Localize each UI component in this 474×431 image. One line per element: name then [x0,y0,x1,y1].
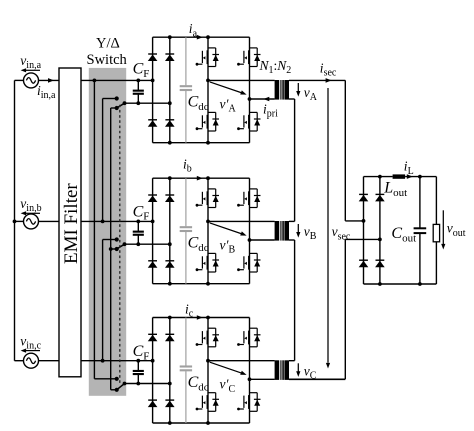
label v_C with arrow [297,363,299,373]
wire secondary a bottom chain to b top [289,98,295,100]
junction top rail m1 [206,316,210,320]
capacitor C_dc phase b [185,178,187,226]
switch coupling dashed line [119,105,121,385]
capacitor C_F phase c [137,361,139,371]
diode D2 top phase b [165,194,174,196]
output diode leg 1 [363,177,365,284]
label v_B with arrow [297,224,299,234]
diode D2 top phase a [165,53,174,55]
inductor L_out [393,174,406,178]
label v_sec with arrow [327,88,329,363]
svg-text:iL: iL [404,159,414,177]
junction bridge midpoint left [206,79,210,83]
wire bridge bottom rail [153,283,250,285]
wire bridge top rail [153,177,250,179]
diode D3 bottom phase a [148,119,157,121]
wire switch output to bridge [125,243,170,245]
mosfet Q1 phase a [208,47,216,49]
svg-text:vA: vA [304,85,318,103]
wire source to EMI filter [39,360,60,362]
EMI filter box [59,68,81,377]
svg-text:EMI Filter: EMI Filter [61,183,82,264]
wire bus 2 to rectifier [345,238,380,240]
diode D2 top phase c [165,333,174,335]
svg-text:Switch: Switch [87,52,128,68]
switch pivot dot phase b [115,247,119,251]
wire output top rail right [405,176,436,178]
svg-text:v′C: v′C [220,377,236,395]
label v'_A with arrow [210,82,242,93]
svg-text:v′A: v′A [220,96,237,114]
svg-text:CF: CF [133,343,150,362]
junction C_F bottom [136,382,140,386]
svg-text:Lout: Lout [383,180,407,199]
mosfet Q3 phase c [208,392,216,394]
svg-text:Cout: Cout [391,225,416,244]
junction C_F bottom [136,242,140,246]
junction top rail m1 [206,176,210,180]
junction top rail d2 [168,176,172,180]
mosfet Q4 phase c [250,392,258,394]
diode leg 1 [152,178,154,284]
wire bridge top rail [153,36,250,38]
transformer Tb [275,221,280,241]
junction blade tip [123,382,127,386]
capacitor C_dc phase a [185,37,187,85]
svg-text:ipri: ipri [263,102,278,120]
mosfet Q2 phase c [250,327,258,329]
switch pivot dot phase c [115,388,119,392]
wire bridge midpoint to transformer top [208,220,275,222]
switch contact dot phase a [115,96,119,100]
junction switch line at diode leg [168,242,172,246]
label v_A with arrow [297,83,299,93]
diode D4 bottom phase a [165,119,174,121]
mosfet Q3 phase a [208,111,216,113]
label v_out with arrow [442,210,444,244]
junction bottom rail d2 [168,421,172,425]
diode leg 2 [169,318,171,424]
svg-text:Y/Δ: Y/Δ [96,36,120,52]
diode D1 top phase a [148,53,157,55]
wire switch output to bridge [125,102,170,104]
mosfet leg 1 [207,37,209,143]
label i_sec with arrow [326,78,332,83]
junction C_F bottom [136,101,140,105]
junction switch line at diode leg [168,101,172,105]
switch blade phase c [117,384,125,390]
svg-text:vout: vout [447,221,466,239]
wire secondary b bottom chain to c top [289,239,295,241]
switch blade phase b [117,244,125,249]
wire bus 1 to rectifier [345,220,363,222]
diode Do3 [359,259,368,261]
svg-text:CF: CF [133,60,150,79]
ac source v_in,b [24,214,39,229]
wire phase line EMI to diode bridge [81,79,153,81]
mosfet Q4 phase a [250,111,258,113]
junction blade tip [123,101,127,105]
junction blade tip [123,242,127,246]
wire bridge bottom rail [153,422,250,424]
wire source to rail [15,79,24,81]
junction C_F top [136,220,140,224]
mosfet Q4 phase b [250,252,258,254]
wire left return rail [14,80,16,360]
svg-text:vin,a: vin,a [20,53,41,71]
svg-text:CF: CF [133,203,150,222]
transformer Tc [275,360,280,380]
wire bridge midpoint to transformer bottom [250,98,275,100]
junction C_out top [418,175,422,179]
ac source v_in,c [24,353,39,368]
Y-Delta switch shaded box [89,68,126,396]
junction L2a phase b [101,220,105,224]
diode leg 1 [152,318,154,424]
label v'_C with arrow [210,362,242,373]
switch blade phase a [117,103,125,108]
diode leg 2 [169,37,171,143]
svg-text:vin,b: vin,b [20,196,41,214]
mosfet leg 1 [207,318,209,424]
svg-text:vsec: vsec [332,224,351,242]
junction L3 phase b [109,247,113,251]
junction output leg1 mid [362,219,366,223]
switch contact dot phase c [115,377,119,381]
junction top rail d2 [168,316,172,320]
junction phase line at diode leg [151,359,155,363]
load resistor [435,177,437,225]
wire source to rail [15,220,24,222]
svg-text:ib: ib [183,156,192,174]
diode D3 bottom phase c [148,399,157,401]
diode D4 bottom phase b [165,260,174,262]
switch contact dot phase b [115,237,119,241]
switch pivot dot phase a [115,106,119,110]
capacitor C_out [419,177,421,228]
junction switch line at diode leg [168,382,172,386]
junction output leg2 bottom [378,282,382,286]
junction output leg2 mid [378,238,382,242]
transformer Ta [275,80,280,100]
label i_L with arrow [407,174,413,179]
diode leg 1 [152,37,154,143]
wire bridge midpoint to transformer bottom [250,239,275,241]
switch line L2b (phase b contact to phase c line) [103,239,116,241]
junction bottom rail m1 [206,282,210,286]
junction L2b phase c [101,359,105,363]
svg-text:ic: ic [185,301,194,319]
junction phase line at diode leg [151,220,155,224]
svg-text:Cdc: Cdc [188,374,209,393]
label v'_B with arrow [210,223,242,234]
svg-text:vin,c: vin,c [20,333,41,351]
junction output leg2 top [378,175,382,179]
junction C_F top [136,359,140,363]
mosfet Q3 phase b [208,252,216,254]
junction bottom rail m1 [206,421,210,425]
diode D3 bottom phase b [148,260,157,262]
mosfet leg 2 [249,318,251,424]
wire secondary c bottom to bus 2 [289,378,345,380]
diode D4 bottom phase c [165,399,174,401]
output diode leg 2 [379,177,381,284]
junction L1 phase a [93,79,97,83]
svg-text:iin,a: iin,a [37,83,56,101]
svg-text:N1:N2: N1:N2 [259,58,292,76]
wire output bottom rail [364,283,437,285]
junction bottom rail m1 [206,141,210,145]
mosfet leg 1 [207,178,209,284]
mosfet Q1 phase b [208,188,216,190]
wire bridge midpoint to transformer top [208,360,275,362]
svg-text:vB: vB [304,224,317,242]
junction top rail d2 [168,35,172,39]
junction C_F top [136,79,140,83]
junction bridge midpoint right [248,377,252,381]
junction bridge midpoint left [206,359,210,363]
diode Do1 [359,193,368,195]
junction left rail phase b [13,220,17,224]
wire bridge top rail [153,317,250,319]
capacitor C_dc phase c [185,318,187,366]
diode leg 2 [169,178,171,284]
label i_pri with arrow [263,97,269,102]
wire source to rail [15,360,24,362]
junction phase line at diode leg [151,79,155,83]
wire source to EMI filter [39,220,60,222]
junction bridge midpoint left [206,220,210,224]
diode D1 top phase c [148,333,157,335]
mosfet Q2 phase a [250,47,258,49]
wire phase line EMI to diode bridge [81,220,153,222]
diode Do2 [376,193,385,195]
wire bridge midpoint to transformer top [208,79,275,81]
mosfet leg 2 [249,37,251,143]
svg-text:Cdc: Cdc [188,94,209,113]
mosfet Q2 phase b [250,188,258,190]
junction C_out bottom [418,282,422,286]
junction bridge midpoint right [248,238,252,242]
ac source v_in,a [24,73,39,88]
junction bridge midpoint right [248,97,252,101]
capacitor C_F phase a [137,80,139,90]
wire phase line EMI to diode bridge [81,360,153,362]
junction bottom rail d2 [168,282,172,286]
switch line L3 (star line joining pivots) [110,108,112,390]
svg-text:v′B: v′B [220,237,236,255]
wire source to EMI filter [39,79,60,81]
wire output top rail [364,176,393,178]
mosfet leg 2 [249,178,251,284]
wire secondary a top to bus 1 (i_sec) [289,79,345,81]
wire bridge bottom rail [153,142,250,144]
diode Do4 [376,259,385,261]
switch line L1 (phase a line to phase c contact) [93,80,95,378]
diode D1 top phase b [148,194,157,196]
junction bottom rail d2 [168,141,172,145]
wire bridge midpoint to transformer bottom [250,378,275,380]
capacitor C_F phase b [137,221,139,231]
mosfet Q1 phase c [208,327,216,329]
switch line L2a (phase a contact to phase b line) [103,98,116,100]
svg-text:isec: isec [320,60,337,78]
wire switch output to bridge [125,383,170,385]
junction top rail m1 [206,35,210,39]
svg-text:Cdc: Cdc [188,235,209,254]
